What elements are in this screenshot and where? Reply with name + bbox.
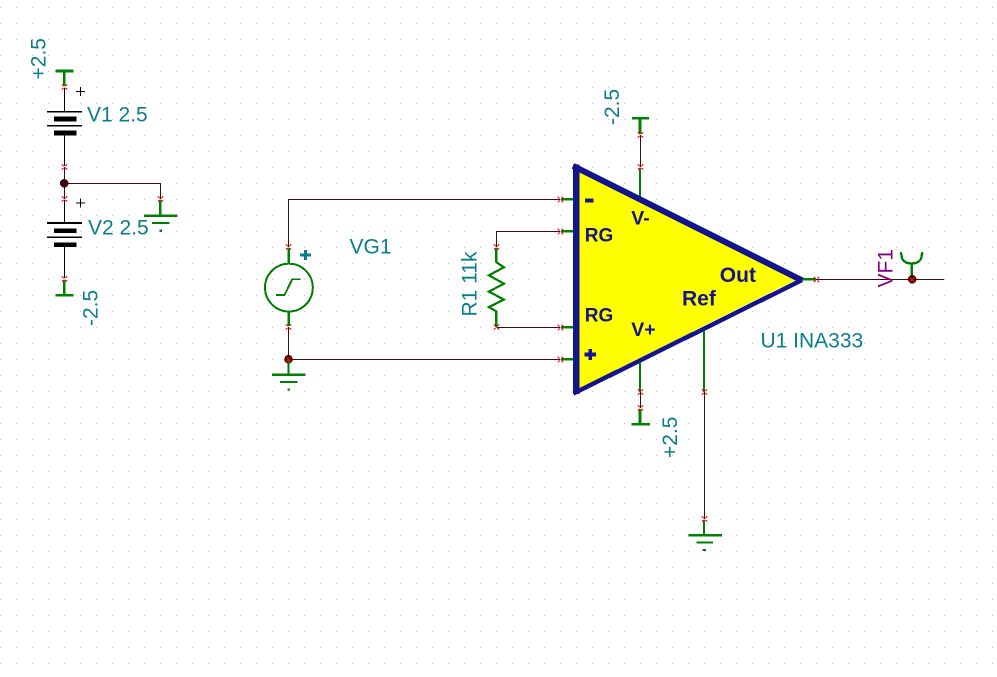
wire node(64,183) right then down to ground G1 <box>65 184 161 200</box>
wire node(64,183) up to V1 bottom pin <box>64 167 66 183</box>
battery V2 <box>47 199 85 279</box>
svg-text:-2.5: -2.5 <box>601 89 624 125</box>
svg-text:R1 11k: R1 11k <box>459 251 482 316</box>
jumper terminal -2.5 (above V-) <box>632 118 649 134</box>
svg-text:VF1: VF1 <box>875 249 898 288</box>
op-amp U1 Out pin stub <box>797 278 816 280</box>
svg-text:V1 2.5: V1 2.5 <box>87 104 148 127</box>
op-amp U1 Ref pin stub (bottom) <box>703 331 705 393</box>
pin-end x markers <box>62 84 915 521</box>
svg-text:Out: Out <box>720 264 756 287</box>
node C junction dot (912,279) <box>908 275 917 284</box>
wire Ref pin down to ground G3 <box>704 392 706 519</box>
svg-text:V2 2.5: V2 2.5 <box>88 216 149 239</box>
pin label minus <box>585 198 594 202</box>
ground G3 (below Ref) <box>689 520 722 550</box>
voltage probe VF1 <box>901 252 923 278</box>
node A junction dot (64,183) <box>60 179 69 188</box>
wire Out pin to VF1 and stub right <box>816 279 944 281</box>
op-amp U1 V- pin stub (top) <box>639 168 641 199</box>
svg-text:RG: RG <box>585 305 614 326</box>
wire node(64,183) down to V2 top pin <box>64 183 66 199</box>
op-amp U1 INA333 triangle body <box>579 172 796 389</box>
op-amp U1 V+ pin stub (bottom) <box>639 363 641 393</box>
voltage generator VG1 <box>265 248 313 326</box>
wire VG1 top to op-amp minus input <box>289 200 561 248</box>
op-amp U1 left pin stubs <box>561 199 578 359</box>
svg-text:Ref: Ref <box>682 288 717 311</box>
svg-text:+2.5: +2.5 <box>659 417 682 458</box>
jumper terminal +2.5 (top left) <box>55 71 73 86</box>
svg-text:-2.5: -2.5 <box>80 290 103 326</box>
node B junction dot (288,359) <box>284 355 293 364</box>
svg-text:U1 INA333: U1 INA333 <box>761 330 864 353</box>
wire VG1 bottom to node(288,359) <box>288 327 290 359</box>
svg-text:RG: RG <box>585 225 614 246</box>
ground G1 (right of node A) <box>144 200 178 231</box>
wire R1 bottom to op-amp RG lower pin <box>497 327 561 329</box>
wire R1 top to op-amp RG upper pin <box>497 232 561 248</box>
VG1 plus polarity mark <box>300 250 311 260</box>
wire -2.5 jumper terminal to V- pin <box>640 135 642 167</box>
ground G2 (below VG1) <box>272 360 306 390</box>
pin label plus <box>585 349 596 360</box>
resistor R1 <box>489 248 504 327</box>
svg-text:V-: V- <box>631 207 649 229</box>
svg-text:+2.5: +2.5 <box>28 38 51 79</box>
wire node(288,359) to op-amp plus input <box>289 359 561 361</box>
battery V1 <box>47 87 85 166</box>
wire V+ pin to +2.5 jumper terminal <box>640 392 642 408</box>
svg-text:V+: V+ <box>631 319 655 341</box>
svg-text:VG1: VG1 <box>350 236 392 259</box>
jumper terminal +2.5 (below V+) <box>631 409 650 424</box>
jumper terminal -2.5 (bottom left) <box>55 280 73 295</box>
